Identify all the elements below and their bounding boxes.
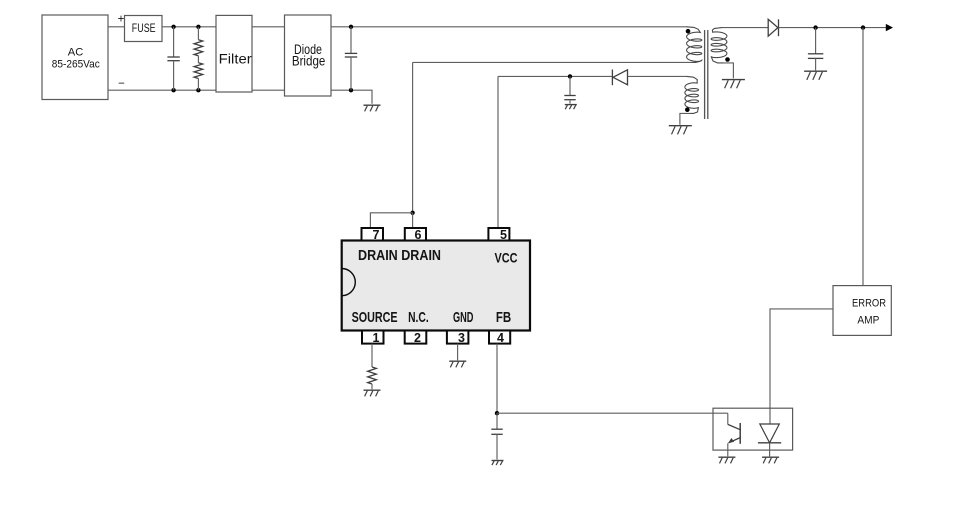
svg-text:4: 4 xyxy=(497,331,504,345)
IC notch xyxy=(342,269,356,296)
ground FB cap xyxy=(492,460,504,462)
pin 7 box xyxy=(362,228,384,241)
wire AC- bottom rail xyxy=(108,89,216,91)
ground opto transistor xyxy=(718,456,735,458)
resistor R3 source xyxy=(368,367,377,384)
pin 4 box xyxy=(489,331,510,344)
output arrowhead xyxy=(886,24,893,31)
junction dot top C1 xyxy=(171,25,175,29)
svg-text:6: 6 xyxy=(415,228,422,242)
wire secondary to output diode xyxy=(722,27,768,29)
wire filter to bridge bottom xyxy=(252,89,285,91)
wire drain rail xyxy=(413,61,692,63)
wire gnd pin to ground xyxy=(457,344,459,361)
junction dot top R1 xyxy=(196,25,200,29)
wire output to error amp xyxy=(862,28,864,286)
wire FB to optocoupler xyxy=(497,412,728,414)
wire drain vertical xyxy=(412,62,414,212)
ground after bridge xyxy=(364,104,381,106)
wire diode to aux winding xyxy=(628,75,687,77)
wire secondary to ground xyxy=(723,63,733,78)
phase dot primary xyxy=(686,29,691,34)
junction dot output branch xyxy=(861,25,865,29)
fuse F1 box xyxy=(125,16,163,42)
wire filter to bridge top xyxy=(252,26,285,28)
pin 2 box xyxy=(405,331,427,344)
svg-text:GND: GND xyxy=(453,309,474,326)
ground pin3 xyxy=(449,360,466,362)
svg-text:AC: AC xyxy=(68,46,84,58)
svg-text:85-265Vac: 85-265Vac xyxy=(52,58,100,70)
junction dot drain xyxy=(410,211,414,215)
capacitor C4 VCC xyxy=(569,76,571,95)
pin 1 box xyxy=(362,331,384,344)
svg-text:5: 5 xyxy=(500,228,507,242)
wire resistor to ground xyxy=(371,384,373,389)
wire VCC vertical xyxy=(497,76,499,228)
opto LED xyxy=(760,424,780,443)
wire bridge bottom to ground xyxy=(331,90,372,104)
wire aux to ground xyxy=(680,113,691,124)
resistor R2 discharge lower xyxy=(197,56,199,63)
diode bridge block xyxy=(285,15,332,96)
svg-text:N.C.: N.C. xyxy=(408,309,429,326)
output diode D1 xyxy=(768,19,778,36)
junction dot bulk cap bottom xyxy=(349,88,353,92)
transformer aux winding xyxy=(685,76,699,113)
pin 5 box xyxy=(488,228,509,241)
pin 6 box xyxy=(405,228,426,241)
opto phototransistor xyxy=(727,413,729,424)
svg-text:3: 3 xyxy=(458,331,465,345)
capacitor C5 FB xyxy=(496,413,498,429)
svg-text:Bridge: Bridge xyxy=(292,54,326,69)
ground output cap xyxy=(804,70,827,72)
filter block xyxy=(216,15,252,92)
svg-text:ERROR: ERROR xyxy=(852,297,886,309)
diode D2 VCC xyxy=(611,70,613,86)
junction dot output cap xyxy=(813,25,817,29)
wire AC+ to fuse xyxy=(108,26,125,28)
ground VCC cap xyxy=(565,104,577,106)
svg-text:+: + xyxy=(118,13,125,25)
junction dot VCC cap xyxy=(568,74,572,78)
phase dot secondary xyxy=(725,57,730,62)
capacitor C1 X-cap xyxy=(173,27,175,57)
phase dot aux xyxy=(685,107,690,112)
capacitor C3 output xyxy=(815,28,817,54)
wire VCC rail to diode xyxy=(498,75,612,77)
transformer secondary winding xyxy=(711,28,727,63)
svg-text:DRAIN DRAIN: DRAIN DRAIN xyxy=(358,247,441,264)
wire error amp to opto LED xyxy=(770,309,833,424)
junction dot FB xyxy=(495,411,499,415)
IC U1 body xyxy=(342,241,530,331)
AC input source box xyxy=(42,15,108,100)
svg-text:SOURCE: SOURCE xyxy=(352,309,398,326)
svg-text:FUSE: FUSE xyxy=(132,23,156,35)
wire output rail xyxy=(779,27,887,29)
wire drain to pin6 xyxy=(412,213,414,228)
ground source resistor xyxy=(364,389,381,391)
svg-text:2: 2 xyxy=(414,331,421,345)
optocoupler PC1 box xyxy=(713,408,793,450)
svg-text:−: − xyxy=(118,78,125,90)
junction dot bottom R1 xyxy=(196,88,200,92)
ground opto LED xyxy=(762,456,779,458)
svg-text:Filter: Filter xyxy=(219,51,253,66)
wire source pin to resistor xyxy=(371,344,373,367)
svg-text:VCC: VCC xyxy=(495,250,518,265)
wire drain branch to pin7 xyxy=(370,213,412,228)
svg-text:7: 7 xyxy=(373,228,380,242)
junction dot bottom C1 xyxy=(171,88,175,92)
svg-text:AMP: AMP xyxy=(857,315,879,327)
svg-text:FB: FB xyxy=(496,309,511,326)
transformer T1 core xyxy=(704,30,706,119)
transformer primary winding xyxy=(687,27,702,63)
resistor R1 discharge upper xyxy=(197,27,199,40)
ground aux xyxy=(669,125,692,127)
wire bridge to transformer primary xyxy=(331,26,687,28)
ground secondary xyxy=(722,79,745,81)
wire FB vertical xyxy=(496,344,498,414)
junction dot bulk cap top xyxy=(349,25,353,29)
svg-text:1: 1 xyxy=(373,331,380,345)
pin 3 box xyxy=(447,331,469,344)
error amp box xyxy=(833,286,891,336)
capacitor C2 bulk xyxy=(350,27,352,54)
wire fuse to filter xyxy=(162,26,216,28)
